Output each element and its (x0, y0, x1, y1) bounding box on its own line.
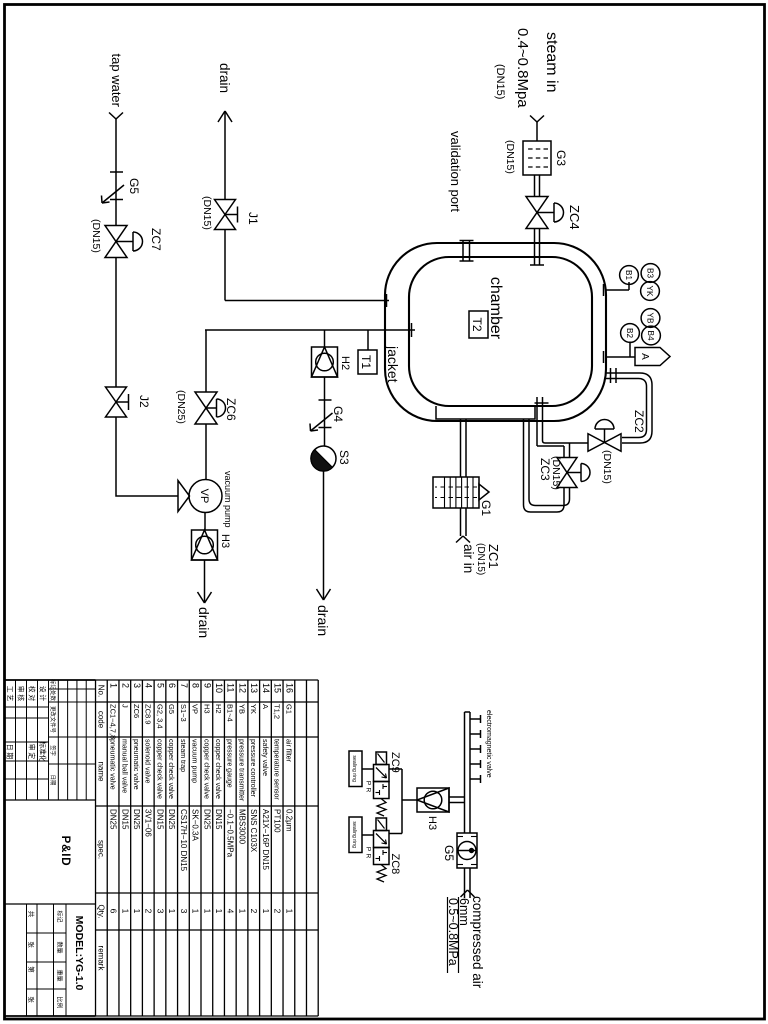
svg-text:B1~4: B1~4 (226, 704, 235, 722)
valve ZC2 (605, 434, 622, 452)
svg-text:copper check valve: copper check valve (214, 739, 221, 799)
pipe trough to G1 (465, 419, 467, 477)
pipe G5 to air inlet (469, 868, 471, 898)
svg-text:YB: YB (646, 313, 655, 324)
svg-text:sealing ring: sealing ring (351, 755, 357, 782)
stub to A (606, 356, 635, 358)
svg-text:1: 1 (237, 909, 247, 914)
svg-text:1: 1 (284, 909, 294, 914)
svg-text:−0.1~0.5MPa: −0.1~0.5MPa (226, 809, 235, 858)
svg-text:G1: G1 (284, 704, 293, 714)
vacuum pump VP (178, 481, 190, 512)
wire H3 to drain (204, 560, 206, 595)
svg-text:pressure transmitter: pressure transmitter (237, 739, 244, 802)
svg-text:G5: G5 (442, 845, 456, 861)
svg-text:drain: drain (315, 605, 331, 636)
svg-text:H3: H3 (202, 704, 211, 714)
svg-text:7: 7 (179, 683, 189, 688)
air filter G3 (523, 141, 551, 175)
pipe ZC4 to jacket (539, 229, 541, 266)
chamber drain stub (542, 397, 544, 441)
svg-text:1: 1 (132, 909, 142, 914)
svg-text:第: 第 (27, 966, 36, 973)
compressed air arrow (468, 890, 475, 897)
svg-text:2: 2 (144, 909, 154, 914)
svg-text:3: 3 (155, 909, 165, 914)
flange steam port (530, 264, 544, 266)
svg-text:G2, 3,4: G2, 3,4 (155, 704, 164, 729)
svg-text:G5: G5 (167, 704, 176, 714)
svg-text:(DN15): (DN15) (201, 196, 213, 230)
condensate trough (436, 406, 535, 419)
svg-text:S1~3: S1~3 (179, 704, 188, 722)
svg-text:ZC8: ZC8 (389, 854, 401, 875)
svg-text:签字: 签字 (49, 745, 57, 756)
svg-text:更改文件号: 更改文件号 (49, 706, 57, 734)
svg-text:spec.: spec. (96, 840, 105, 859)
svg-text:0.2μm: 0.2μm (284, 809, 293, 832)
stub jacket to ZC2 loop (606, 373, 652, 443)
svg-text:manual ball valve: manual ball valve (120, 739, 127, 793)
svg-text:1: 1 (214, 909, 224, 914)
pipe manifold to ZC6 (205, 330, 207, 392)
svg-text:drain: drain (196, 607, 212, 638)
svg-text:pneumatic valve: pneumatic valve (109, 739, 116, 790)
svg-text:S3: S3 (337, 450, 351, 465)
svg-text:T2: T2 (470, 317, 484, 331)
svg-text:DN15: DN15 (155, 809, 164, 830)
svg-text:数量: 数量 (56, 941, 64, 953)
transmitter YB (641, 309, 660, 328)
svg-text:1: 1 (109, 683, 119, 688)
VP drain arrow (204, 595, 206, 603)
validation port stub (469, 241, 471, 262)
J1 drain arrow (224, 111, 226, 126)
svg-text:1: 1 (191, 909, 201, 914)
svg-text:steam trap: steam trap (179, 739, 186, 772)
solenoid valve ZC8 (374, 831, 390, 848)
svg-text:R: R (365, 854, 372, 859)
svg-text:G3: G3 (554, 150, 568, 166)
svg-text:1: 1 (120, 909, 130, 914)
svg-text:审 定: 审 定 (28, 744, 37, 760)
svg-text:处数: 处数 (49, 690, 57, 701)
valve J2 (106, 387, 127, 402)
branch to T1 (367, 330, 369, 350)
G1 triangle (479, 484, 489, 500)
svg-text:0.4~0.8Mpa: 0.4~0.8Mpa (514, 28, 531, 108)
svg-text:比例: 比例 (56, 996, 64, 1008)
svg-text:copper check valve: copper check valve (155, 739, 162, 799)
svg-text:DN25: DN25 (167, 809, 176, 830)
svg-text:ZC6: ZC6 (132, 704, 141, 718)
svg-text:P: P (365, 847, 372, 851)
gauge B1 (620, 266, 639, 285)
solenoid valve ZC9 (374, 765, 390, 782)
air filter G1 (433, 477, 479, 508)
svg-text:ZC7: ZC7 (149, 228, 163, 251)
svg-text:pressure gauge: pressure gauge (226, 739, 233, 788)
flange ZC2 stub (615, 368, 617, 383)
pipe ZC6 to VP (205, 424, 207, 480)
svg-text:pressure controller: pressure controller (249, 739, 256, 798)
svg-text:校 对: 校 对 (28, 686, 37, 702)
svg-text:safety valve: safety valve (261, 739, 268, 776)
svg-text:工 艺: 工 艺 (6, 686, 14, 702)
svg-text:H2: H2 (214, 704, 223, 714)
svg-text:B4: B4 (646, 330, 655, 340)
svg-text:ZC8.9: ZC8.9 (144, 704, 153, 724)
T1 sensor box (358, 350, 377, 374)
svg-text:DN15: DN15 (214, 809, 223, 830)
svg-text:2: 2 (249, 909, 259, 914)
svg-text:A: A (639, 353, 650, 360)
svg-text:CS17H−10 DN15: CS17H−10 DN15 (179, 809, 188, 872)
svg-text:PT100: PT100 (273, 809, 282, 833)
svg-text:copper check valve: copper check valve (167, 739, 174, 799)
svg-text:steam in: steam in (543, 32, 560, 92)
title block (4, 680, 6, 1016)
svg-text:10: 10 (214, 683, 224, 693)
svg-text:DN25: DN25 (109, 809, 118, 830)
valve ZC4 (526, 197, 548, 213)
svg-text:(DN25): (DN25) (175, 390, 187, 424)
pipe J1 corner (224, 230, 226, 301)
svg-text:G1: G1 (479, 500, 493, 516)
svg-text:A21X−16P DN15: A21X−16P DN15 (261, 809, 270, 871)
svg-text:张: 张 (27, 996, 36, 1003)
svg-text:vacuum pump: vacuum pump (223, 471, 233, 528)
svg-text:tap water: tap water (109, 54, 124, 108)
svg-text:drain: drain (217, 63, 232, 93)
svg-text:J: J (120, 704, 129, 708)
parts list table (317, 680, 319, 1016)
pipe ZC3 return leg (529, 419, 570, 506)
svg-text:3V1−06: 3V1−06 (144, 809, 153, 837)
svg-text:temperature sensor: temperature sensor (273, 739, 280, 800)
svg-text:1: 1 (261, 909, 271, 914)
flange validation port (460, 240, 474, 242)
svg-text:A: A (261, 704, 270, 709)
valve ZC6 (195, 392, 217, 408)
svg-text:16: 16 (284, 683, 294, 693)
svg-text:ZC1−4,7,8: ZC1−4,7,8 (109, 704, 118, 739)
svg-text:YK: YK (645, 286, 654, 297)
pipe VP to H3 (204, 513, 206, 531)
branch to H2 (324, 330, 326, 347)
valve ZC3 (557, 458, 577, 473)
flange J1 stub (386, 294, 388, 307)
svg-text:共: 共 (27, 911, 36, 918)
svg-text:code: code (96, 711, 105, 729)
check valve H3 (192, 530, 218, 560)
svg-text:(DN15): (DN15) (90, 219, 102, 253)
pipe H3 to solenoids (402, 799, 417, 801)
svg-text:2: 2 (273, 909, 283, 914)
svg-text:T1,2: T1,2 (273, 704, 282, 719)
manifold stubs (470, 718, 481, 720)
svg-text:(DN15): (DN15) (504, 140, 516, 174)
svg-text:2: 2 (120, 683, 130, 688)
svg-text:标准化: 标准化 (39, 741, 48, 762)
steam trap S3 (311, 446, 336, 471)
svg-text:pneumatic valve: pneumatic valve (132, 739, 139, 790)
svg-text:J1: J1 (246, 212, 260, 225)
svg-text:ZC1: ZC1 (486, 544, 501, 569)
svg-text:14: 14 (261, 683, 271, 693)
svg-text:15: 15 (273, 683, 283, 693)
svg-text:标记: 标记 (49, 679, 57, 690)
valve J1 (215, 200, 236, 215)
air inlet arrow (463, 536, 470, 543)
svg-text:H3: H3 (219, 534, 231, 548)
svg-text:copper check valve: copper check valve (202, 739, 209, 799)
svg-text:G5: G5 (127, 178, 141, 194)
svg-text:P: P (365, 781, 372, 785)
wire B1 link (628, 282, 630, 290)
tap water pipe (115, 119, 117, 226)
svg-text:VP: VP (198, 489, 210, 504)
svg-text:T1: T1 (359, 355, 373, 369)
svg-text:G4: G4 (331, 406, 345, 422)
pipe drain elbow up (543, 441, 589, 444)
svg-text:VP: VP (191, 704, 200, 714)
check valve H3 air (417, 788, 449, 812)
svg-text:air in: air in (461, 544, 476, 573)
wire G4 to S3 (324, 400, 326, 446)
svg-text:ZC4: ZC4 (567, 205, 582, 230)
svg-text:SNS C103X: SNS C103X (249, 809, 258, 853)
svg-text:P&ID: P&ID (59, 836, 71, 867)
svg-text:11: 11 (226, 683, 236, 692)
pipe to ZC3 (569, 443, 571, 458)
svg-text:12: 12 (237, 683, 247, 693)
branch to H3 air (449, 796, 465, 798)
svg-text:(DN15): (DN15) (601, 450, 613, 484)
svg-text:YK: YK (249, 704, 258, 714)
svg-text:ZC6: ZC6 (224, 398, 238, 421)
pipe to vacuum pump (116, 480, 178, 496)
svg-text:MODEL:YG-1.0: MODEL:YG-1.0 (73, 916, 85, 991)
svg-text:9: 9 (202, 683, 212, 688)
regulator G5 air (457, 833, 477, 868)
pipe G1 to air inlet (465, 508, 467, 536)
svg-text:标记: 标记 (56, 910, 64, 922)
svg-text:B2: B2 (625, 328, 634, 338)
svg-text:H2: H2 (339, 356, 351, 370)
svg-text:(DN15): (DN15) (494, 64, 506, 99)
svg-text:设 计: 设 计 (39, 686, 48, 702)
svg-text:MBS3000: MBS3000 (237, 809, 246, 845)
svg-text:日期: 日期 (49, 775, 56, 786)
svg-text:electromagnetic valve: electromagnetic valve (485, 710, 492, 778)
air manifold pipe (469, 712, 471, 833)
svg-text:1: 1 (167, 909, 177, 914)
svg-text:5: 5 (155, 683, 165, 688)
gauge B3 (641, 264, 660, 283)
flange manifold (411, 323, 413, 337)
wire S3 to drain (323, 471, 325, 592)
svg-text:DN25: DN25 (132, 809, 141, 830)
svg-text:ZC2: ZC2 (632, 410, 646, 433)
svg-text:3: 3 (179, 909, 189, 914)
svg-text:validation port: validation port (448, 131, 463, 212)
svg-text:compressed air: compressed air (470, 896, 485, 989)
check valve G4 (319, 399, 332, 401)
svg-text:张: 张 (27, 941, 36, 948)
svg-text:重量: 重量 (56, 969, 64, 981)
svg-text:vacuum pump: vacuum pump (191, 739, 198, 783)
pipe G3 to ZC4 (539, 175, 541, 197)
svg-text:8: 8 (191, 683, 201, 688)
safety valve A (635, 348, 670, 366)
svg-text:1: 1 (202, 909, 212, 914)
svg-text:日 期: 日 期 (6, 744, 14, 760)
svg-text:sealing ring: sealing ring (351, 821, 357, 848)
svg-text:R: R (365, 788, 372, 793)
svg-text:Qty.: Qty. (96, 904, 105, 918)
svg-text:No.: No. (96, 685, 105, 697)
svg-text:YB: YB (237, 704, 246, 714)
svg-text:chamber: chamber (487, 277, 504, 340)
gauge B2 (621, 324, 640, 343)
check valve H2 (312, 347, 338, 377)
svg-text:6: 6 (109, 909, 119, 914)
check valve G5 (110, 171, 123, 173)
S3 drain arrow (323, 592, 325, 600)
jacket drain stub (225, 300, 389, 302)
svg-text:air filter: air filter (284, 739, 291, 763)
controller YK (641, 282, 660, 301)
svg-text:remark: remark (96, 946, 105, 972)
gauge B4 (642, 326, 661, 345)
tap water arrow (116, 113, 123, 120)
svg-text:6: 6 (167, 683, 177, 688)
manifold from chamber (205, 329, 415, 331)
svg-text:3: 3 (132, 683, 142, 688)
wire B2 link (629, 342, 631, 358)
svg-text:4: 4 (226, 909, 236, 914)
valve ZC7 (105, 226, 127, 242)
wire H2 to G4 (324, 377, 326, 400)
T2 sensor box (469, 311, 488, 338)
jacket outer shell (385, 243, 606, 421)
flange chamber drain (535, 402, 549, 404)
svg-text:name: name (96, 761, 105, 782)
svg-text:B3: B3 (646, 268, 655, 278)
svg-text:SK−0.3A: SK−0.3A (191, 809, 200, 841)
svg-text:4: 4 (144, 683, 154, 688)
rule 6mm (458, 897, 460, 973)
svg-text:B1: B1 (624, 270, 633, 280)
svg-text:13: 13 (249, 683, 259, 693)
svg-text:solenoid valve: solenoid valve (144, 739, 151, 783)
svg-text:ZC9: ZC9 (389, 752, 401, 773)
svg-text:审 核: 审 核 (17, 686, 26, 702)
rule MPa (447, 897, 449, 973)
wire steam single (536, 122, 538, 141)
svg-text:H3: H3 (426, 816, 438, 830)
svg-text:DN25: DN25 (202, 809, 211, 830)
svg-text:ZC3: ZC3 (538, 458, 552, 481)
stub to B1 group (606, 289, 629, 291)
svg-text:jacket: jacket (385, 345, 401, 383)
steam inlet arrow (537, 116, 544, 123)
svg-text:J2: J2 (137, 395, 151, 408)
svg-text:DN15: DN15 (120, 809, 129, 830)
chamber inner shell (409, 257, 592, 406)
